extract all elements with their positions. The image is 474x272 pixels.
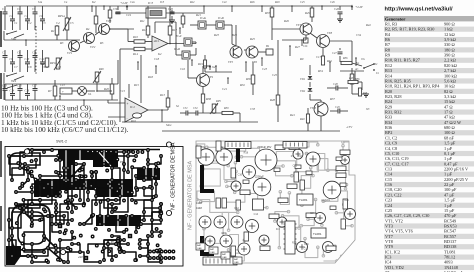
svg-text:C32: C32 <box>193 107 198 110</box>
svg-text:X3: X3 <box>365 107 370 111</box>
svg-text:S1a: S1a <box>38 1 43 4</box>
svg-text:VT8: VT8 <box>327 31 333 35</box>
svg-text:C9: C9 <box>42 65 46 69</box>
svg-text:VT2: VT2 <box>90 45 96 49</box>
svg-text:R25: R25 <box>292 242 297 245</box>
svg-text:C3: C3 <box>17 7 21 11</box>
svg-text:R12: R12 <box>235 207 240 210</box>
svg-text:C5: C5 <box>32 7 36 11</box>
svg-text:R40: R40 <box>299 118 305 121</box>
svg-text:C13: C13 <box>60 84 65 87</box>
svg-text:-9V: -9V <box>110 240 114 244</box>
svg-text:BAT: BAT <box>234 258 239 261</box>
svg-text:2200uF: 2200uF <box>255 174 264 178</box>
svg-text:VT7: VT7 <box>296 23 302 27</box>
svg-text:C22: C22 <box>293 164 298 167</box>
svg-text:+9V: +9V <box>78 255 83 259</box>
svg-text:NF - GENERATOR DE MSA: NF - GENERATOR DE MSA <box>188 161 194 230</box>
svg-text:BAT: BAT <box>210 248 215 251</box>
svg-text:SWb: SWb <box>11 80 17 83</box>
svg-text:R4: R4 <box>85 27 90 31</box>
svg-text:-: - <box>154 47 155 51</box>
svg-text:C25: C25 <box>272 73 278 77</box>
svg-text:R14: R14 <box>132 52 138 56</box>
svg-text:C7: C7 <box>14 65 18 69</box>
svg-text:R3: R3 <box>59 41 64 45</box>
svg-text:C15: C15 <box>120 89 126 93</box>
svg-text:100u: 100u <box>221 231 227 235</box>
svg-text:R41: R41 <box>289 113 295 117</box>
svg-text:C1: C1 <box>14 21 18 25</box>
svg-text:R39: R39 <box>223 107 229 110</box>
svg-text:R26: R26 <box>249 1 255 4</box>
svg-text:TL081: TL081 <box>299 198 308 202</box>
svg-text:C8: C8 <box>28 65 32 69</box>
svg-text:C19: C19 <box>126 13 132 17</box>
svg-text:R45: R45 <box>348 77 354 80</box>
svg-text:R12: R12 <box>141 28 147 32</box>
svg-text:R33: R33 <box>264 11 270 15</box>
svg-text:10 kHz bis 100 kHz (C6/C7 und: 10 kHz bis 100 kHz (C6/C7 und C11/C12). <box>1 125 129 134</box>
svg-text:R1: R1 <box>50 29 55 33</box>
svg-text:C2b: C2b <box>303 45 308 48</box>
svg-text:C26: C26 <box>334 7 340 11</box>
svg-text:R42: R42 <box>365 23 371 27</box>
svg-text:C2: C2 <box>10 14 14 18</box>
svg-text:X2: X2 <box>211 65 216 69</box>
svg-text:CAB: CAB <box>210 251 215 254</box>
svg-text:R27: R27 <box>294 45 300 49</box>
svg-text:CAB: CAB <box>234 261 239 264</box>
svg-text:IC4c: IC4c <box>175 34 183 38</box>
svg-text:C22: C22 <box>222 1 227 4</box>
svg-text:C20: C20 <box>168 7 174 11</box>
svg-text:C10: C10 <box>25 58 30 61</box>
svg-text:+: + <box>127 102 129 106</box>
svg-text:R21: R21 <box>195 13 201 17</box>
svg-text:R20: R20 <box>103 87 109 91</box>
svg-text:C17: C17 <box>316 55 322 59</box>
svg-text:OG: OG <box>361 58 365 61</box>
svg-text:R29: R29 <box>304 11 310 15</box>
svg-text:C11: C11 <box>32 52 37 55</box>
svg-text:http://www.qsl.net/va3iul/: http://www.qsl.net/va3iul/ <box>385 7 453 13</box>
svg-text:C29: C29 <box>335 106 340 109</box>
svg-text:RP5: RP5 <box>215 100 221 103</box>
svg-text:C31: C31 <box>183 107 188 110</box>
svg-text:R13: R13 <box>159 93 165 97</box>
svg-text:2200uF 25V: 2200uF 25V <box>257 145 271 149</box>
svg-text:R10: R10 <box>132 35 138 39</box>
svg-text:SW: SW <box>46 209 51 213</box>
svg-text:R32: R32 <box>239 83 245 87</box>
svg-text:R19: R19 <box>197 62 203 66</box>
svg-text:CAB: CAB <box>197 247 202 250</box>
svg-text:R34: R34 <box>317 69 323 73</box>
svg-text:BAT: BAT <box>197 244 202 247</box>
svg-text:C13: C13 <box>2 85 7 88</box>
svg-text:R15: R15 <box>133 83 139 87</box>
svg-text:C16: C16 <box>180 67 186 71</box>
svg-text:R28: R28 <box>269 98 275 102</box>
svg-text:C6: C6 <box>40 14 44 18</box>
svg-text:C10: C10 <box>56 65 62 69</box>
svg-text:R36: R36 <box>342 57 348 60</box>
svg-text:NF - GENERATOR DE'MSA: NF - GENERATOR DE'MSA <box>171 142 177 210</box>
svg-text:R23: R23 <box>213 33 219 37</box>
svg-text:+24V: +24V <box>355 5 364 9</box>
svg-text:-: - <box>127 116 128 120</box>
svg-text:+: + <box>62 90 64 94</box>
svg-text:XL: XL <box>87 93 92 96</box>
svg-text:IC2: IC2 <box>130 105 135 109</box>
svg-text:R48: R48 <box>362 92 368 95</box>
svg-text:C2: C2 <box>28 21 32 25</box>
svg-text:C25: C25 <box>300 1 305 4</box>
svg-text:R22: R22 <box>189 1 195 4</box>
svg-text:C15: C15 <box>17 85 22 88</box>
svg-text:K2: K2 <box>157 52 162 56</box>
svg-text:R33: R33 <box>297 155 302 158</box>
svg-text:VD1: VD1 <box>326 199 331 202</box>
svg-text:CAB: CAB <box>222 256 227 259</box>
svg-text:R25: R25 <box>249 37 255 41</box>
svg-text:VT3: VT3 <box>106 19 112 23</box>
svg-text:R21: R21 <box>344 199 349 202</box>
svg-text:R38: R38 <box>205 97 211 101</box>
svg-text:C26: C26 <box>330 1 335 4</box>
svg-text:C14: C14 <box>10 90 15 93</box>
svg-text:IC3: IC3 <box>147 1 153 5</box>
svg-text:C1: C1 <box>2 7 6 11</box>
svg-text:C30: C30 <box>113 7 119 11</box>
svg-text:C4: C4 <box>56 21 60 25</box>
svg-text:C17: C17 <box>32 85 37 88</box>
svg-text:C2a: C2a <box>130 1 135 4</box>
svg-text:VD1: VD1 <box>300 78 306 81</box>
svg-text:R11: R11 <box>139 19 145 23</box>
svg-text:C21: C21 <box>222 87 228 91</box>
svg-text:R30: R30 <box>245 77 251 81</box>
svg-text:RP2: RP2 <box>98 68 104 71</box>
svg-text:-15V: -15V <box>346 125 353 129</box>
svg-text:C24: C24 <box>310 212 315 215</box>
svg-text:C34: C34 <box>356 33 362 37</box>
svg-text:VT9: VT9 <box>208 75 214 79</box>
svg-text:B1: B1 <box>266 44 270 48</box>
svg-text:R7: R7 <box>47 89 52 93</box>
svg-text:C23: C23 <box>262 67 268 71</box>
svg-text:RP1a: RP1a <box>57 14 65 18</box>
svg-text:SW1-2: SW1-2 <box>56 140 67 144</box>
svg-text:R9: R9 <box>299 57 304 61</box>
svg-text:IC4: IC4 <box>276 228 280 231</box>
svg-text:R37: R37 <box>329 97 335 101</box>
svg-text:C18: C18 <box>154 57 160 61</box>
svg-text:R5: R5 <box>99 41 104 45</box>
svg-text:BAT: BAT <box>222 253 227 256</box>
svg-text:Sine: Sine <box>166 123 172 127</box>
svg-text:R18: R18 <box>147 75 153 79</box>
svg-text:IC4d: IC4d <box>173 47 181 51</box>
svg-text:R24: R24 <box>231 33 237 37</box>
svg-text:C12: C12 <box>40 58 45 61</box>
svg-text:C33: C33 <box>250 107 256 111</box>
svg-text:SWa: SWa <box>11 37 17 41</box>
svg-text:IC4b: IC4b <box>217 16 225 20</box>
svg-text:VT3: VT3 <box>202 238 207 241</box>
svg-text:C28: C28 <box>333 83 338 86</box>
svg-text:R31: R31 <box>326 59 332 63</box>
svg-text:R26: R26 <box>283 19 289 23</box>
svg-text:IC1: IC1 <box>155 39 160 43</box>
svg-text:C27: C27 <box>332 52 337 55</box>
svg-text:VT1: VT1 <box>67 51 73 55</box>
svg-text:TL081: TL081 <box>313 232 322 236</box>
svg-text:AC: AC <box>354 68 359 71</box>
svg-text:VT10: VT10 <box>310 107 317 110</box>
svg-text:C16: C16 <box>238 173 243 176</box>
svg-text:+: + <box>154 40 156 44</box>
svg-text:4148: 4148 <box>196 201 202 205</box>
svg-text:C16: C16 <box>25 90 30 93</box>
svg-text:C3: C3 <box>42 21 46 25</box>
svg-text:4148: 4148 <box>196 206 202 210</box>
svg-text:R29: R29 <box>274 1 280 4</box>
svg-text:C4: C4 <box>25 14 29 18</box>
svg-text:C14: C14 <box>254 213 259 216</box>
svg-text:IC3: IC3 <box>159 1 165 4</box>
svg-text:K2: K2 <box>91 0 96 4</box>
svg-text:C31: C31 <box>304 247 309 250</box>
svg-text:R18: R18 <box>244 151 249 154</box>
svg-text:VT5: VT5 <box>228 60 234 64</box>
svg-text:C5: C5 <box>70 21 74 25</box>
svg-text:P3: P3 <box>120 160 124 164</box>
svg-text:R39: R39 <box>304 243 309 246</box>
svg-text:VD2: VD2 <box>300 90 306 93</box>
svg-text:S2: S2 <box>176 104 180 108</box>
svg-text:+24V: +24V <box>120 1 129 5</box>
